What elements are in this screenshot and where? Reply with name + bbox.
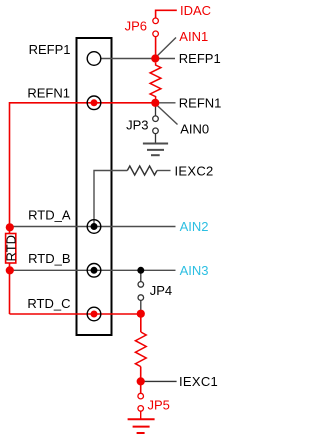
terminal RTD_A dot xyxy=(91,223,98,230)
jumper JP4 xyxy=(138,282,144,301)
svg-text:REFP1: REFP1 xyxy=(29,42,71,57)
svg-text:IDAC: IDAC xyxy=(180,3,211,18)
svg-text:RTD: RTD xyxy=(3,235,18,261)
svg-text:IEXC1: IEXC1 xyxy=(179,374,218,389)
terminal REFN1 xyxy=(87,96,101,110)
resistor IEXC2 xyxy=(127,166,157,175)
svg-text:JP5: JP5 xyxy=(148,398,170,413)
wire REFN1 label line xyxy=(155,102,176,104)
wire JP3 to ground xyxy=(155,134,157,143)
terminal REFP1 xyxy=(87,52,101,66)
wire RTD_A row xyxy=(10,226,176,228)
wire RTD_C row red xyxy=(10,314,141,332)
wire IEXC1 label line xyxy=(141,380,177,382)
wire RTD_B row xyxy=(10,269,176,271)
terminal RTD_C xyxy=(87,307,101,321)
wire AIN1 diagonal xyxy=(156,38,176,58)
svg-text:REFN1: REFN1 xyxy=(179,96,222,111)
terminal RTD_B xyxy=(87,264,101,278)
node RTD_B left junction xyxy=(6,266,14,274)
jumper JP5 xyxy=(138,393,144,411)
resistor REFP1-REFN1 xyxy=(150,63,161,99)
wire IEXC2 label line xyxy=(157,170,171,172)
node REFN1 junction xyxy=(151,99,159,107)
svg-text:REFN1: REFN1 xyxy=(27,86,70,101)
svg-text:AIN2: AIN2 xyxy=(180,219,209,234)
resistor IEXC1 xyxy=(135,332,146,367)
terminal RTD_A xyxy=(87,220,101,234)
ground GND1 xyxy=(143,144,168,156)
svg-text:RTD_C: RTD_C xyxy=(27,296,70,311)
terminal RTD_B dot xyxy=(91,267,98,274)
wire AIN3 to JP4 xyxy=(140,270,142,281)
svg-text:REFP1: REFP1 xyxy=(179,51,221,66)
node AIN3 junction xyxy=(137,267,144,274)
wire JP5 to ground xyxy=(140,411,142,418)
RTD box xyxy=(3,234,18,264)
svg-text:IEXC2: IEXC2 xyxy=(175,163,214,178)
svg-text:JP4: JP4 xyxy=(150,283,172,298)
jumper JP3 xyxy=(153,116,159,134)
node RTD_A left junction xyxy=(6,223,14,231)
svg-text:JP3: JP3 xyxy=(126,118,148,133)
wire resistor to JP5 xyxy=(140,367,142,394)
wire JP4 to RTD_C node xyxy=(140,300,142,310)
wire JP6 to node REFP1 xyxy=(155,37,157,59)
wire IEXC2 xyxy=(94,171,127,227)
node IEXC1 junction xyxy=(137,377,145,385)
ground GND2 red xyxy=(128,419,155,433)
wire IDAC to JP6 xyxy=(156,10,177,18)
wire REFN1 row red xyxy=(10,103,156,314)
svg-text:AIN1: AIN1 xyxy=(179,29,208,44)
jumper JP6 xyxy=(153,18,159,37)
node REFP1 junction xyxy=(151,54,159,62)
terminal RTD_C dot xyxy=(91,311,98,318)
wire REFP1 row xyxy=(101,58,175,60)
terminal block J1 xyxy=(77,38,112,335)
svg-text:AIN3: AIN3 xyxy=(180,263,209,278)
terminal REFN1 dot xyxy=(91,99,98,106)
svg-text:RTD_B: RTD_B xyxy=(28,251,70,266)
node RTD_C junction xyxy=(137,310,145,318)
svg-text:JP6: JP6 xyxy=(125,19,147,34)
wire node to JP3 xyxy=(155,103,157,116)
svg-text:RTD_A: RTD_A xyxy=(28,208,71,223)
wire AIN0 diagonal xyxy=(156,104,178,125)
svg-text:AIN0: AIN0 xyxy=(180,121,209,136)
